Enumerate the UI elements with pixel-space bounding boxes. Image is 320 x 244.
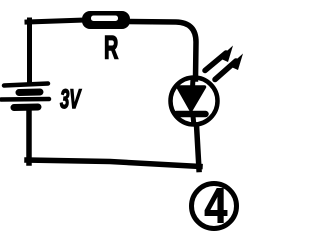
wire right vertical below LED (197, 125, 200, 170)
light arrow 1 (205, 46, 233, 71)
wire bottom horizontal (27, 160, 200, 167)
light arrow 2 (215, 54, 243, 80)
battery B1 plate short upper (19, 89, 40, 97)
resistor R (82, 11, 130, 29)
svg-text:4: 4 (204, 178, 227, 233)
svg-text:R: R (104, 30, 118, 66)
battery B1 plate long lower (1, 97, 49, 102)
figure number 4 circle (192, 184, 237, 229)
battery B1 plate short bottom (14, 104, 38, 112)
LED D1 cathode wire inside (193, 116, 194, 126)
wire top-left horizontal (27, 20, 86, 22)
wire left vertical upper (27, 20, 32, 84)
battery B1 plate long top (4, 84, 48, 86)
LED D1 circle (171, 78, 218, 125)
wire top-right horizontal with rounded corner down (128, 22, 196, 80)
LED D1 cathode bar (177, 111, 206, 118)
wire left vertical lower (26, 110, 32, 163)
LED D1 triangle (178, 87, 205, 110)
svg-text:3V: 3V (60, 84, 82, 114)
LED D1 anode wire inside (190, 78, 196, 88)
